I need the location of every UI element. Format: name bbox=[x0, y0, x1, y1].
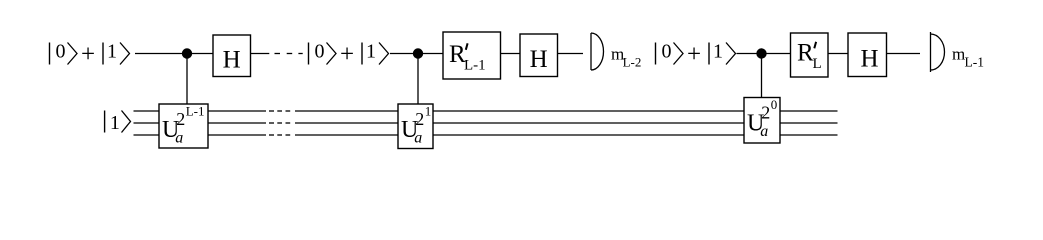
svg-text:2: 2 bbox=[761, 103, 770, 123]
svg-text:a: a bbox=[175, 130, 183, 147]
control dot 3 bbox=[756, 48, 766, 97]
svg-text:H: H bbox=[530, 46, 548, 73]
wire top qubit section 1 bbox=[135, 53, 213, 55]
svg-text:0: 0 bbox=[662, 41, 672, 63]
wire register line 2 bbox=[134, 122, 838, 124]
wire R1 to H2 bbox=[501, 53, 521, 55]
svg-text:0: 0 bbox=[771, 97, 778, 112]
svg-text:m: m bbox=[952, 45, 965, 64]
wire top qubit section 2 bbox=[390, 53, 443, 55]
label m_L-1 bbox=[952, 45, 984, 70]
svg-text:1: 1 bbox=[713, 41, 723, 63]
svg-text:L-1: L-1 bbox=[464, 58, 486, 74]
svg-text:1: 1 bbox=[366, 41, 376, 63]
svg-text:a: a bbox=[414, 130, 422, 147]
gate U_a^2^1 bbox=[398, 104, 433, 149]
control dot 1 bbox=[182, 48, 192, 104]
svg-text:+: + bbox=[81, 41, 95, 68]
gate R'_L bbox=[791, 33, 829, 77]
ket label |0>+|1> qubit 1 bbox=[50, 41, 130, 69]
detector D1 bbox=[591, 33, 604, 70]
svg-text:0: 0 bbox=[315, 41, 325, 63]
svg-text:L-2: L-2 bbox=[623, 55, 642, 70]
svg-text:L-1: L-1 bbox=[186, 104, 205, 119]
wire top dashed ellipsis after H1 bbox=[251, 53, 303, 55]
svg-text:1: 1 bbox=[110, 112, 120, 134]
gate U_a^2^L-1 bbox=[159, 104, 208, 149]
svg-text:0: 0 bbox=[56, 41, 66, 63]
control dot 2 bbox=[413, 48, 423, 104]
wire top qubit section 3 bbox=[737, 53, 791, 55]
svg-text:H: H bbox=[223, 47, 241, 74]
svg-text:2: 2 bbox=[176, 109, 185, 129]
gate R'_L-1 bbox=[443, 32, 501, 79]
svg-text:L: L bbox=[813, 56, 822, 72]
wire register line 1 bbox=[134, 110, 838, 112]
svg-text:L-1: L-1 bbox=[965, 55, 985, 70]
svg-text:a: a bbox=[760, 123, 768, 140]
svg-text:+: + bbox=[340, 41, 354, 68]
ket label |0>+|1> qubit 2 bbox=[309, 41, 389, 69]
svg-text:1: 1 bbox=[107, 41, 117, 63]
detector D2 bbox=[931, 32, 945, 72]
svg-text:H: H bbox=[860, 46, 878, 73]
svg-text:1: 1 bbox=[425, 104, 432, 119]
label m_L-2 bbox=[611, 45, 641, 70]
ket label |1> register bbox=[105, 111, 131, 134]
wire R2 to H3 bbox=[828, 53, 848, 55]
svg-text:R: R bbox=[797, 40, 814, 67]
svg-text:2: 2 bbox=[415, 109, 424, 129]
wire register line 3 bbox=[134, 134, 838, 136]
gate H1 bbox=[213, 35, 251, 77]
gate H3 bbox=[848, 33, 887, 77]
wire H2 to detector D1 bbox=[558, 53, 584, 55]
gate H2 bbox=[520, 34, 558, 77]
svg-text:+: + bbox=[687, 41, 701, 68]
gate U_a^2^0 bbox=[744, 97, 780, 143]
wire H3 to detector D2 bbox=[887, 53, 921, 55]
ket label |0>+|1> qubit 3 bbox=[656, 41, 736, 69]
